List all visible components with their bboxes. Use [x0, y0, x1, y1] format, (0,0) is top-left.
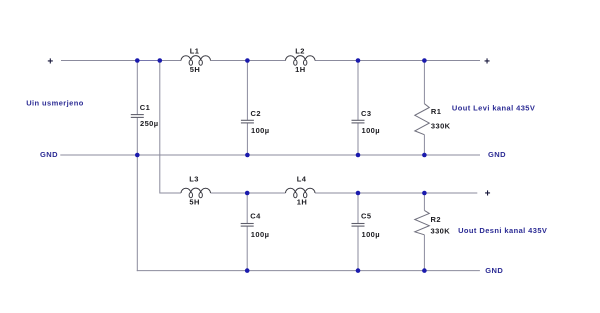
capacitor C5	[352, 224, 365, 227]
wire R2 top lead	[423, 193, 425, 210]
node top rail / C1	[135, 58, 140, 63]
capacitor C4	[241, 224, 254, 227]
wire C5 branch lower	[357, 226, 359, 271]
wire second channel rail seg2 L3 to L4	[211, 192, 286, 194]
svg-text:R2: R2	[431, 215, 441, 224]
node top rail / C3	[356, 58, 361, 63]
inductor L4	[286, 188, 316, 198]
svg-text:GND: GND	[40, 150, 58, 159]
svg-text:C3: C3	[361, 109, 371, 118]
svg-text:100µ: 100µ	[251, 230, 270, 239]
svg-text:330K: 330K	[431, 226, 451, 235]
wire C2 branch upper	[246, 61, 248, 121]
wire top rail seg1	[61, 60, 137, 62]
node GND / C1	[135, 153, 140, 158]
svg-text:C1: C1	[140, 103, 150, 112]
svg-text:L2: L2	[295, 47, 305, 56]
wire bottom GND rail	[137, 270, 480, 272]
svg-text:+: +	[485, 189, 491, 200]
node GND / R1	[422, 153, 427, 158]
node rail2 / R2	[422, 191, 427, 196]
capacitor C2	[241, 120, 254, 123]
svg-text:5H: 5H	[190, 65, 200, 74]
svg-text:L3: L3	[189, 175, 199, 184]
wire R2 bottom lead	[423, 235, 425, 271]
node top rail / feed	[158, 58, 163, 63]
wire second channel rail seg1	[160, 192, 181, 194]
node GND / C2	[245, 153, 250, 158]
resistor R2	[415, 210, 430, 234]
node rail2 / C5	[356, 191, 361, 196]
svg-text:Uout Levi kanal 435V: Uout Levi kanal 435V	[452, 103, 535, 112]
node top rail / R1	[422, 58, 427, 63]
svg-text:Uout Desni kanal 435V: Uout Desni kanal 435V	[458, 226, 547, 235]
wire second channel rail seg3 L4 to right +	[315, 192, 477, 194]
svg-text:Uin usmerjeno: Uin usmerjeno	[26, 98, 84, 107]
wire C5 branch upper	[357, 193, 359, 224]
svg-text:100µ: 100µ	[362, 126, 381, 135]
inductor L3	[181, 188, 211, 198]
svg-text:+: +	[47, 56, 53, 67]
wire C3 branch upper	[357, 61, 359, 121]
wire top rail seg2 (between nodes)	[137, 60, 160, 62]
svg-text:GND: GND	[488, 150, 506, 159]
svg-text:100µ: 100µ	[362, 230, 381, 239]
svg-text:1H: 1H	[295, 65, 305, 74]
node bottom / C4	[245, 268, 250, 273]
svg-text:1H: 1H	[297, 198, 307, 207]
capacitor C1	[131, 115, 144, 118]
node bottom / R2	[422, 268, 427, 273]
wire R1 bottom lead	[423, 135, 425, 155]
inductor L1	[181, 56, 211, 66]
wire top rail seg4 L1 to C2 node	[211, 60, 286, 62]
node GND / C3	[356, 153, 361, 158]
svg-text:C5: C5	[361, 211, 371, 220]
resistor R1	[415, 104, 430, 135]
node bottom / C5	[356, 268, 361, 273]
wire C4 branch upper	[246, 193, 248, 224]
wire vertical C1 branch lower	[136, 117, 138, 271]
svg-text:5H: 5H	[189, 198, 199, 207]
node top rail / C2	[245, 58, 250, 63]
svg-text:L1: L1	[190, 47, 200, 56]
wire vertical feed to second channel	[159, 61, 162, 194]
wire GND rail	[60, 154, 480, 156]
wire vertical C1 branch upper	[136, 61, 138, 115]
node rail2 / C4	[245, 191, 250, 196]
svg-text:100µ: 100µ	[251, 126, 270, 135]
wire C2 branch lower	[246, 123, 248, 155]
wire top rail seg3 to L1	[160, 60, 181, 62]
svg-text:330K: 330K	[431, 122, 451, 131]
svg-text:C4: C4	[250, 211, 261, 220]
svg-text:+: +	[484, 57, 490, 68]
capacitor C3	[352, 120, 365, 123]
svg-text:250µ: 250µ	[140, 119, 159, 128]
svg-text:R1: R1	[431, 107, 441, 116]
wire C4 branch lower	[246, 226, 248, 271]
inductor L2	[286, 56, 316, 66]
wire C3 branch lower	[357, 123, 359, 155]
wire top rail seg5 L2 to C3 node	[315, 60, 424, 62]
svg-text:GND: GND	[485, 266, 503, 275]
svg-text:L4: L4	[297, 175, 307, 184]
wire top rail seg6 to right +	[424, 60, 480, 62]
wire R1 top lead	[423, 61, 425, 104]
svg-text:C2: C2	[251, 109, 261, 118]
